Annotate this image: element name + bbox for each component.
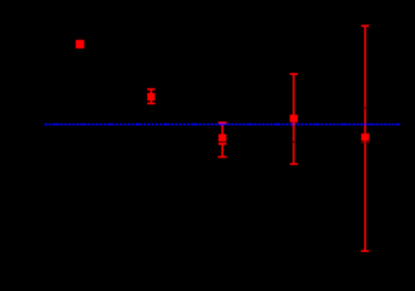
hidden black cap over point 3 bar (gap between square and inner cap)	[218, 141, 226, 142]
error bar point 5	[361, 26, 369, 251]
marker square point 2	[147, 93, 155, 101]
error bar point 3	[218, 123, 227, 157]
dark ghost bar under point 5 square	[361, 141, 369, 143]
blue dashed reference line (right part)	[295, 123, 400, 125]
blue dashed reference line (left part)	[45, 123, 293, 125]
hidden black cap over point 4 line (gap at y~142)	[290, 141, 298, 143]
marker square point 4	[290, 115, 298, 123]
error bar point 4	[290, 74, 298, 164]
marker square point 5	[361, 134, 369, 141]
marker square point 1	[76, 40, 85, 49]
error bar point 2	[147, 89, 155, 103]
hidden black cap over point 5 line (gap at y~108)	[361, 107, 369, 109]
marker square point 3	[218, 134, 226, 141]
